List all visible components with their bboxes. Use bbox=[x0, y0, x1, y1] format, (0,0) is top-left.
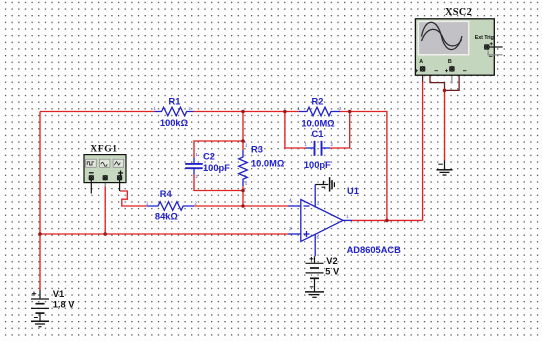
svg-text:B: B bbox=[448, 59, 452, 65]
svg-text:5 V: 5 V bbox=[325, 267, 340, 277]
svg-text:A: A bbox=[419, 59, 423, 65]
svg-text:XSC2: XSC2 bbox=[445, 7, 472, 18]
svg-text:U1: U1 bbox=[347, 186, 359, 196]
svg-text:V2: V2 bbox=[326, 256, 337, 266]
svg-text:R3: R3 bbox=[251, 144, 263, 154]
svg-text:84kΩ: 84kΩ bbox=[155, 212, 179, 222]
svg-text:C2: C2 bbox=[203, 152, 215, 162]
svg-text:100kΩ: 100kΩ bbox=[160, 118, 189, 128]
svg-text:100pF: 100pF bbox=[203, 163, 230, 173]
svg-text:10.0MΩ: 10.0MΩ bbox=[301, 119, 335, 129]
svg-text:10.0MΩ: 10.0MΩ bbox=[251, 159, 285, 169]
svg-text:R2: R2 bbox=[312, 97, 324, 107]
svg-text:R1: R1 bbox=[169, 97, 181, 107]
svg-text:1.8 V: 1.8 V bbox=[53, 300, 76, 310]
svg-text:R4: R4 bbox=[160, 189, 173, 199]
svg-text:C1: C1 bbox=[312, 129, 324, 139]
svg-text:V1: V1 bbox=[53, 289, 64, 299]
svg-text:XFG1: XFG1 bbox=[90, 144, 117, 154]
svg-text:100pF: 100pF bbox=[304, 160, 331, 170]
svg-text:AD8605ACB: AD8605ACB bbox=[347, 245, 402, 255]
svg-text:Ext Trig: Ext Trig bbox=[475, 35, 494, 41]
